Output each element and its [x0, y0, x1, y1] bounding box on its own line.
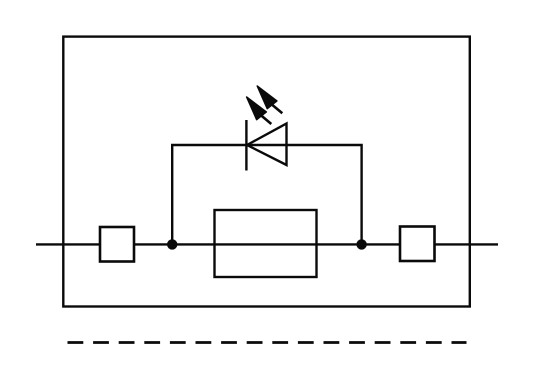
wire: main horizontal conductor — [36, 243, 498, 245]
node B (right junction) — [356, 239, 366, 249]
node A (left junction) — [167, 239, 177, 249]
terminal contact left — [100, 227, 134, 262]
LED D1 emission arrow lower — [247, 97, 272, 124]
terminal contact right — [400, 227, 435, 262]
LED D1 emission arrow upper — [257, 86, 282, 113]
LED D1 triangle — [247, 124, 287, 166]
enclosure box — [63, 37, 470, 307]
dashed separator line — [68, 341, 467, 344]
LED D1 cathode bar — [245, 120, 247, 171]
wire: bypass loop (left riser, top conductor, right riser) — [172, 145, 361, 244]
fuse F1 — [215, 210, 317, 277]
